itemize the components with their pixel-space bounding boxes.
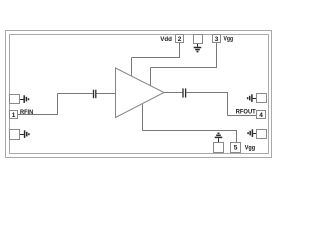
svg-text:5: 5 [234,145,238,152]
svg-text:RFOUT: RFOUT [236,109,256,116]
svg-text:1: 1 [12,112,16,119]
svg-text:2: 2 [178,36,182,43]
svg-text:3: 3 [215,36,219,43]
svg-text:4: 4 [259,112,263,119]
svg-text:Vdd: Vdd [160,36,172,43]
svg-text:RFIN: RFIN [20,109,33,116]
svg-text:Vgg: Vgg [224,35,234,42]
svg-text:Vgg: Vgg [245,144,255,151]
